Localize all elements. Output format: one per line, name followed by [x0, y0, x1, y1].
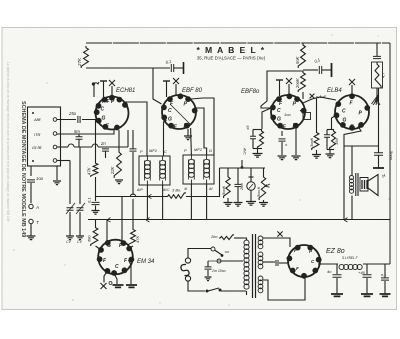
- svg-text:Gℓ ℓℓℓ: Gℓ ℓℓℓ: [32, 145, 42, 150]
- wire k node down: [118, 130, 120, 150]
- wire ECH81 grid top lead: [111, 86, 113, 97]
- IF transformer MF2: [183, 155, 214, 184]
- wire em34 res to pin: [96, 246, 101, 250]
- wire elb4 pair dn: [329, 150, 331, 154]
- wire em34 osc drop: [132, 199, 134, 228]
- elb4 pair bottom: [327, 149, 334, 151]
- svg-text:5m: 5m: [74, 129, 80, 134]
- capacitor 5m: [76, 137, 83, 139]
- ground filter 2: [361, 294, 373, 296]
- svg-text:·uo: ·uo: [224, 250, 229, 254]
- wire ECH81 plate to MF1: [124, 102, 147, 156]
- svg-text:4,7: 4,7: [381, 72, 386, 78]
- resistor avc 500K: [224, 175, 231, 198]
- wire ELB4 plate drop: [378, 88, 380, 146]
- wire term2 right: [221, 260, 243, 262]
- wire elb4 cc lead: [326, 130, 328, 135]
- wire prim bottom: [246, 291, 248, 295]
- ground avc 500K: [224, 203, 233, 207]
- svg-text:La platine du bloc de ce monta: La platine du bloc de ce montage est fou…: [6, 62, 10, 222]
- resistor 47K: [91, 162, 98, 177]
- resistor elb4 150: [330, 130, 336, 150]
- wire after res: [186, 196, 220, 198]
- wire 296 dn: [295, 128, 297, 155]
- wire em34 line down: [95, 197, 97, 202]
- wire choke out: [363, 263, 390, 265]
- ground det pair: [253, 154, 263, 158]
- wire MF1 C bottom lead: [162, 185, 164, 220]
- ground em34 cap: [92, 211, 100, 215]
- tuner terminal IT: [53, 132, 57, 136]
- diode coupling box: [303, 113, 311, 120]
- capacitor 2m 15oo: [205, 267, 212, 269]
- wire avc cap up: [237, 168, 239, 184]
- IF transformer MF1: [139, 156, 170, 185]
- wire coupling box stub: [300, 110, 304, 114]
- wire avc bus left drop: [219, 168, 221, 197]
- pot tap circle: [247, 182, 255, 190]
- wire line y197: [96, 196, 166, 198]
- svg-text:47K: 47K: [135, 236, 140, 243]
- wire switch2 right: [221, 290, 246, 292]
- wire osc cap up: [132, 130, 134, 149]
- wire ECH81 heater lead 1: [93, 85, 95, 97]
- svg-text:5oK: 5oK: [295, 56, 300, 64]
- wire pot tap dn: [250, 190, 252, 201]
- wire avc stub: [241, 160, 243, 169]
- svg-text:G: G: [209, 148, 212, 153]
- svg-text:EM 34: EM 34: [137, 259, 155, 265]
- ground CV1: [66, 236, 74, 240]
- wire avc500 dn: [227, 198, 229, 202]
- tuner terminal 4: [53, 159, 57, 163]
- resistor box top right: [372, 62, 383, 88]
- wire cap f1 dn: [336, 278, 338, 294]
- svg-text:* M A B E L *: * M A B E L *: [197, 45, 266, 55]
- tuner block box: [28, 107, 61, 166]
- svg-text:2oo: 2oo: [239, 183, 244, 191]
- wire MF2 G bottom lead: [206, 184, 208, 220]
- ground below terminal T: [27, 236, 36, 240]
- wire det cap lead2: [252, 139, 254, 149]
- capacitor 1oo left: [27, 180, 35, 182]
- variable capacitor CV2: [77, 208, 84, 210]
- vol wiper arrow: [265, 184, 270, 187]
- switch2 dot a: [206, 290, 209, 293]
- wire plug top: [188, 249, 211, 259]
- ground cath: [278, 156, 287, 160]
- svg-text:C: C: [168, 108, 172, 114]
- wire cath cap dn: [281, 142, 283, 155]
- mains terminal 1: [211, 247, 215, 251]
- tuner terminal A: [53, 118, 57, 122]
- svg-text:15o: 15o: [334, 138, 339, 145]
- wire EBF80-2 grid top lead: [288, 84, 290, 96]
- X above ELB4: [349, 79, 355, 85]
- svg-text:MF2: MF2: [194, 147, 203, 152]
- speaker voice coil 2: [364, 180, 366, 189]
- wire EBF80-1 diode to MF2: [194, 108, 207, 155]
- transformer sec HT top: [258, 236, 263, 241]
- ground 300K: [312, 155, 321, 159]
- svg-text:G: G: [277, 117, 281, 123]
- svg-text:+46: +46: [358, 270, 366, 275]
- wire B+ top rail: [86, 42, 390, 44]
- X near transformer: [277, 231, 282, 236]
- det pair bracket bottom: [253, 148, 262, 150]
- svg-text:C: C: [115, 264, 119, 270]
- svg-text:22K: 22K: [110, 166, 115, 175]
- resistor 50K divider top: [298, 43, 305, 68]
- scan speckles: [13, 34, 389, 305]
- wire vc2 up: [79, 147, 81, 204]
- switch2 dot b: [219, 289, 222, 292]
- X above EBF80-2: [286, 78, 292, 84]
- capacitor elb4 cath: [324, 135, 330, 137]
- wire htc to tube: [279, 262, 288, 264]
- wire OT bottom: [351, 196, 353, 220]
- svg-text:CV: CV: [77, 240, 83, 244]
- variable capacitor CV1: [67, 208, 74, 210]
- wire 1oo to A terminal: [30, 183, 32, 203]
- svg-text:SCHEMA DE MONTAGE DE NOTRE MOD: SCHEMA DE MONTAGE DE NOTRE MODELE MB 149: [20, 101, 26, 237]
- wire osc cap down: [132, 152, 134, 195]
- speaker voice coil 3: [366, 180, 368, 189]
- wire B+ to cap: [376, 43, 378, 56]
- svg-text:ELB4: ELB4: [327, 88, 342, 94]
- elb4 pair bracket: [327, 129, 334, 131]
- svg-text:C: C: [101, 107, 105, 113]
- resistor 47K em34 plate: [128, 228, 135, 246]
- tube EBF80 first: [162, 95, 196, 129]
- wire vc2 down: [79, 212, 81, 236]
- wire pot tap up: [250, 168, 252, 182]
- wire plate line to MF2 G: [203, 98, 214, 155]
- wire drop to EBF80 grid: [153, 68, 162, 104]
- svg-text:CV: CV: [66, 240, 72, 244]
- wire em34 below X: [104, 271, 108, 283]
- pot tap T: [249, 176, 254, 178]
- svg-text:o,L: o,L: [381, 272, 387, 277]
- svg-text:G: G: [102, 116, 106, 122]
- wire GO mid: [74, 146, 92, 148]
- wire avc cap dn: [237, 187, 239, 202]
- wire avc500 up: [227, 168, 229, 175]
- wire cap f3 dn: [384, 281, 386, 294]
- terminal A circle: [29, 204, 33, 208]
- wire sec mid to EZ80: [263, 261, 275, 263]
- svg-text:3ooK: 3ooK: [309, 137, 314, 147]
- speaker cone: [368, 175, 378, 196]
- mains terminal 2: [217, 259, 221, 263]
- wire vc1 up: [69, 161, 71, 205]
- tube ECH81: [96, 97, 129, 130]
- wire MF1 P bottom lead: [146, 185, 148, 220]
- wire em34 cap down: [95, 206, 97, 211]
- svg-text:4o: 4o: [327, 269, 332, 274]
- svg-text:F: F: [294, 248, 297, 253]
- svg-text:±5: ±5: [245, 125, 250, 130]
- wire 5m down: [78, 140, 80, 148]
- ground below EBF80-1: [184, 136, 192, 140]
- wire EBF80-1 heater lead: [166, 81, 168, 97]
- X above ECH81: [109, 80, 115, 86]
- svg-text:EZ 8o: EZ 8o: [326, 248, 345, 255]
- ground CV2: [76, 236, 84, 240]
- wire EBF80-1 plate to right: [191, 98, 203, 99]
- wire ant to cap: [57, 119, 76, 121]
- EBF80-1 internal diode line: [170, 104, 190, 124]
- wire osc right: [127, 130, 129, 147]
- svg-text:AℓP: AℓP: [136, 188, 143, 192]
- wire box to plate arrow: [376, 88, 378, 100]
- svg-text:P: P: [140, 149, 143, 154]
- filter choke: [339, 264, 344, 269]
- svg-text:P: P: [184, 148, 187, 153]
- tube EZ80: [288, 245, 320, 277]
- wire OT drop: [351, 146, 353, 175]
- coupling cap X 0,1uF: [310, 94, 315, 99]
- wire plug bottom: [188, 281, 205, 291]
- hop over at 133: [130, 194, 136, 197]
- wire avc bus: [220, 167, 266, 169]
- wire row2: [57, 130, 114, 134]
- wire tube1 S to MF2 P: [190, 128, 193, 155]
- svg-text:25o: 25o: [68, 111, 77, 116]
- switch blade: [215, 250, 223, 255]
- resistor 200K divider bottom: [298, 71, 305, 92]
- OT core: [355, 173, 357, 196]
- svg-text:G: G: [107, 243, 111, 249]
- wire block bottom right: [56, 166, 58, 180]
- transformer core: [252, 234, 254, 298]
- svg-text:5ooK: 5ooK: [221, 185, 226, 195]
- svg-text:1oo: 1oo: [36, 176, 44, 181]
- wire EBF80-1 cathode to ground: [187, 129, 189, 136]
- svg-text:1oo: 1oo: [284, 112, 291, 117]
- tuner terminal GO: [53, 145, 57, 149]
- wire block bottom left: [30, 166, 32, 176]
- heater junction arrow 3: [344, 218, 348, 223]
- vc2 arrow: [76, 203, 85, 214]
- wire EZ80 out: [318, 263, 338, 265]
- capacitor 0,1 em34: [92, 202, 100, 204]
- ground 2m cap: [205, 277, 212, 281]
- ECH81 top cap arrow 1: [93, 82, 99, 85]
- EBF80-2 top bar: [276, 79, 283, 81]
- OT primary coil: [349, 176, 353, 180]
- svg-text:ITℓℓ: ITℓℓ: [34, 132, 41, 137]
- X below EM34: [101, 283, 107, 289]
- svg-text:EBF 80: EBF 80: [182, 88, 203, 94]
- wire ELB4 cath path: [344, 126, 361, 220]
- svg-text:3 Bo.: 3 Bo.: [172, 188, 181, 193]
- svg-text:47K: 47K: [87, 167, 92, 175]
- svg-text:2ko: 2ko: [210, 234, 218, 239]
- svg-text:F F P: F F P: [102, 99, 115, 105]
- resistor 1K in box: [375, 62, 381, 88]
- ground EM34 2: [126, 285, 137, 287]
- hop row3 at 47K: [92, 144, 98, 147]
- tube EM34: [98, 240, 133, 275]
- capacitor avc 2oo: [235, 184, 242, 186]
- wire EBF80-1 grid top lead: [175, 84, 177, 96]
- wire divider junction to cap: [303, 69, 318, 71]
- resistor det load: [258, 130, 264, 149]
- wire vol top: [263, 168, 265, 175]
- wire screen cap to bar: [322, 69, 331, 71]
- wire em34 gnd1 lead: [115, 275, 118, 285]
- ground 22K: [115, 180, 123, 184]
- wire 300K up: [316, 99, 318, 132]
- ECH81 top bar: [100, 80, 107, 82]
- wire GO right: [98, 146, 128, 148]
- capacitor filter 1: [333, 275, 342, 277]
- wire 5m up: [78, 134, 80, 137]
- chassis bar 5ooo: [373, 167, 384, 169]
- resistor volume 500K: [259, 175, 266, 200]
- wire MF2 P bottom lead: [190, 184, 192, 220]
- wire 47K to pin: [130, 246, 134, 248]
- svg-text:35, RUE D'ALSACE — PARIS (Xe: 35, RUE D'ALSACE — PARIS (Xe): [197, 56, 266, 61]
- resistor 3Bo horizontal: [166, 193, 186, 198]
- svg-text:2m 15oo: 2m 15oo: [211, 269, 226, 273]
- switch2 blade: [208, 288, 219, 291]
- wire cap f3 up: [384, 264, 386, 278]
- svg-text:C: C: [164, 149, 167, 154]
- wire em34 res up: [95, 220, 97, 227]
- switch dot: [221, 254, 224, 257]
- ground filter 3: [380, 294, 391, 296]
- svg-text:5ooo: 5ooo: [389, 151, 394, 161]
- svg-text:F: F: [296, 266, 299, 271]
- screen cap bar: [331, 63, 333, 77]
- wire choke jn1: [336, 264, 338, 274]
- capacitor 25o: [78, 116, 80, 123]
- wire row4 terminal: [57, 160, 70, 162]
- capacitor 5ooo: [374, 153, 383, 156]
- capacitor filter 2: [363, 275, 372, 277]
- svg-text:G: G: [343, 118, 347, 124]
- wire EBF80-2 heater lead: [279, 80, 281, 96]
- wire IT terminal: [57, 133, 74, 135]
- transformer sec fil: [258, 252, 263, 257]
- svg-text:AVC: AVC: [162, 188, 170, 192]
- wire 200K bottom into tube: [302, 92, 304, 99]
- heater junction arrow 2: [146, 218, 150, 223]
- svg-text:G: G: [168, 117, 172, 123]
- wire det cap leads: [252, 130, 254, 137]
- wire speaker B line: [344, 145, 379, 147]
- capacitor filter 3: [381, 278, 389, 280]
- arrow into ELB4 plate: [373, 100, 380, 105]
- transformer core 2: [255, 234, 257, 298]
- ground below block: [53, 181, 61, 185]
- wire vc1 down: [69, 212, 71, 236]
- transformer primary coil: [244, 240, 249, 245]
- wire EBF80-2 cath down: [281, 131, 283, 136]
- wire 47K down: [95, 177, 97, 197]
- wire cap to bar: [174, 67, 183, 69]
- wire heater line: [88, 219, 390, 221]
- arrow into ELB4 plate: [372, 95, 379, 104]
- terminal T circle: [29, 219, 33, 223]
- ground elb4 cath: [326, 154, 335, 158]
- svg-text:27K: 27K: [77, 57, 82, 67]
- wire EBF80-2 plate to ELB4: [303, 97, 336, 103]
- y197 junction arrow: [148, 194, 152, 198]
- svg-text:2ooK: 2ooK: [295, 78, 300, 89]
- svg-text:5oo.K: 5oo.K: [256, 186, 261, 197]
- wire cap to grid node: [82, 113, 96, 120]
- wire em34 heater drop: [106, 220, 108, 242]
- vc1 arrow: [66, 203, 75, 214]
- svg-text:68o: 68o: [87, 235, 92, 242]
- capacitor 0,1 screen: [319, 66, 321, 74]
- wire em34 gnd2 lead: [129, 260, 132, 284]
- em34 small circle: [109, 282, 112, 285]
- wire 300K dn: [316, 150, 318, 154]
- capacitor det: [250, 136, 256, 138]
- wire 2m cap up: [207, 261, 209, 267]
- OT core2: [357, 173, 359, 196]
- det pair bracket top: [253, 129, 262, 131]
- wire B+ right rail: [389, 43, 391, 264]
- wire sec3 lead: [263, 277, 305, 300]
- X above EBF80-1: [173, 78, 179, 84]
- tuner inner dots: [32, 112, 34, 114]
- ground filter 1: [331, 294, 343, 296]
- speaker magnet box: [360, 178, 368, 192]
- ground avc cap: [234, 203, 243, 207]
- wire diode out: [262, 108, 271, 129]
- svg-text:MF1: MF1: [149, 148, 157, 153]
- svg-text:A: A: [35, 205, 39, 210]
- wire em34 grid drop: [121, 197, 123, 241]
- plug contact bottom: [185, 276, 190, 281]
- wire prim top: [243, 238, 247, 240]
- wire T to ground: [30, 224, 32, 236]
- svg-text:AVC: AVC: [243, 147, 247, 155]
- ground 296: [292, 156, 301, 160]
- resistor 2ko: [219, 235, 234, 240]
- capacitor htc: [276, 260, 278, 266]
- EBF80-1 top bar: [163, 80, 170, 82]
- capacitor 5o osc: [130, 149, 137, 151]
- wire ELB4 grid top lead: [351, 85, 353, 95]
- wire ECH81 heater lead 2: [103, 81, 105, 97]
- wire sec top to EZ80: [263, 238, 290, 247]
- svg-text:C: C: [342, 109, 346, 115]
- wire 2m cap dn: [207, 270, 209, 276]
- ground EM34 1: [113, 285, 124, 287]
- plug contact top: [185, 258, 190, 263]
- resistor 68o em34: [91, 226, 98, 246]
- capacitor 2n: [102, 149, 109, 151]
- wire cap 5ooo dn: [378, 156, 380, 168]
- wire GO terminal: [57, 146, 68, 148]
- wire choke jn2: [366, 264, 368, 274]
- resistor 300K det: [312, 131, 319, 150]
- terminal bar: [183, 62, 185, 74]
- wire AVC line from 27K: [86, 67, 170, 69]
- svg-text:EBF8o: EBF8o: [241, 89, 260, 95]
- wire vol dn: [263, 200, 265, 202]
- heater junction arrow 1: [107, 218, 111, 223]
- wire grid node down: [95, 120, 97, 163]
- svg-text:C: C: [277, 108, 281, 114]
- speaker voice coil 1: [361, 180, 363, 189]
